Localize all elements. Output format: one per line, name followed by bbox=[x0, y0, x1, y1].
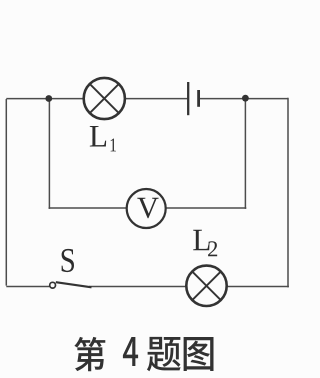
wire left bbox=[5, 99, 7, 286]
wire bottom bbox=[6, 286, 289, 288]
label L2 bbox=[193, 230, 217, 257]
wire voltmeter branch left vertical bbox=[48, 99, 50, 209]
node left junction bbox=[45, 95, 52, 102]
caption 第4题图 bbox=[74, 337, 213, 371]
lamp L1 bbox=[84, 78, 125, 119]
voltmeter V bbox=[127, 189, 166, 228]
wire right bbox=[287, 98, 289, 288]
switch S bbox=[50, 282, 92, 288]
label L1 bbox=[90, 126, 116, 151]
label V of voltmeter bbox=[137, 198, 158, 218]
wire top bbox=[6, 98, 288, 100]
battery bbox=[188, 82, 198, 115]
lamp L2 bbox=[186, 266, 226, 306]
label S bbox=[62, 249, 74, 272]
wire voltmeter branch right vertical bbox=[244, 99, 246, 209]
node right junction bbox=[242, 95, 249, 102]
wire voltmeter branch horizontal bbox=[49, 207, 247, 209]
